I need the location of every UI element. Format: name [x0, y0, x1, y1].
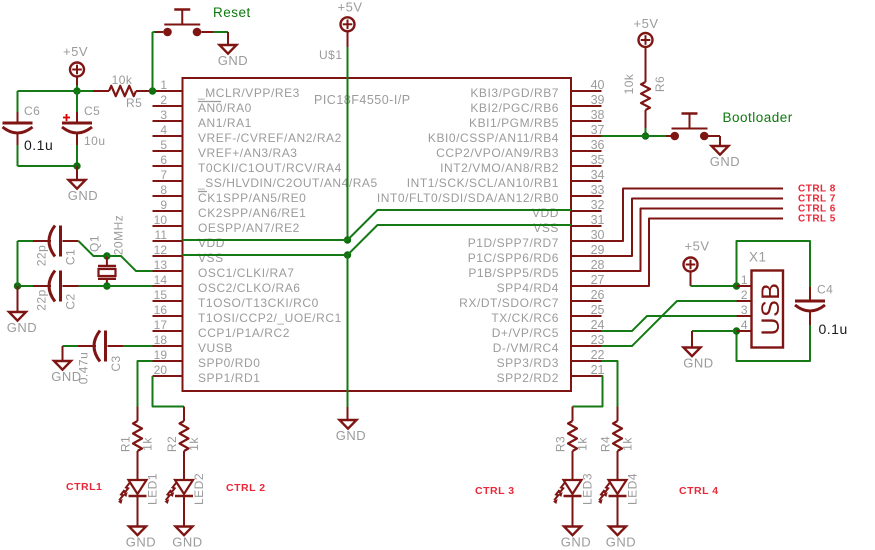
node +5V rail junction	[73, 87, 80, 94]
svg-text:1k: 1k	[187, 437, 201, 451]
wire CTRL 7 from pin 29	[602, 199, 784, 257]
wire VSS down to ground	[347, 255, 349, 407]
svg-text:3: 3	[160, 108, 167, 122]
svg-text:30: 30	[591, 228, 605, 242]
IC U$1 PIC18F4550-I/P body outline	[183, 78, 572, 391]
+5V supply symbol at R6	[639, 33, 653, 47]
svg-text:C1: C1	[64, 249, 78, 265]
IC U$1 left pin stubs 1-20	[153, 91, 183, 376]
svg-text:19: 19	[154, 348, 168, 362]
wire C2 to pin 14 OSC2	[79, 285, 153, 287]
ground symbol at C3	[54, 361, 71, 370]
svg-text:17: 17	[154, 318, 168, 332]
svg-text:0.1u: 0.1u	[819, 321, 848, 337]
svg-text:11: 11	[155, 228, 168, 242]
svg-text:18: 18	[154, 333, 168, 347]
svg-text:+5V: +5V	[685, 239, 710, 254]
svg-text:_SS/HLVDIN/C2OUT/AN4/RA5: _SS/HLVDIN/C2OUT/AN4/RA5	[197, 176, 378, 190]
wire bootloader button to ground	[704, 135, 720, 137]
svg-text:5: 5	[160, 138, 167, 152]
svg-text:1: 1	[741, 273, 748, 287]
svg-text:VUSB: VUSB	[198, 341, 233, 355]
ground symbol below LED3	[564, 527, 581, 536]
svg-text:10k: 10k	[112, 73, 133, 87]
capacitor C5 10u electrolytic	[76, 91, 78, 112]
wire reset button left contact down to MCLR node	[155, 31, 163, 33]
svg-text:_MCLR/VPP/RE3: _MCLR/VPP/RE3	[197, 86, 300, 100]
svg-text:KBI3/PGD/RB7: KBI3/PGD/RB7	[470, 86, 559, 100]
svg-text:22p: 22p	[35, 289, 49, 311]
IC U$1 left pin names	[197, 86, 378, 385]
capacitor C6 0.1u	[17, 91, 19, 112]
svg-text:35: 35	[591, 153, 605, 167]
wire VSS left to pin 12	[183, 254, 348, 256]
svg-text:VSS: VSS	[198, 251, 224, 265]
node crystal top junction	[103, 252, 110, 259]
svg-text:+5V: +5V	[338, 0, 363, 15]
svg-text:VDD: VDD	[532, 206, 559, 220]
svg-text:GND: GND	[606, 535, 636, 550]
+5V supply symbol left	[70, 63, 84, 77]
LED3	[564, 480, 582, 494]
svg-text:20MHz: 20MHz	[112, 215, 126, 256]
svg-text:CK2SPP/AN6/RE1: CK2SPP/AN6/RE1	[198, 206, 306, 220]
svg-text:1k: 1k	[141, 437, 155, 451]
svg-text:1k: 1k	[621, 437, 635, 451]
ground symbol below C5	[69, 180, 86, 189]
svg-text:INT0/FLT0/SDI/SDA/AN12/RB0: INT0/FLT0/SDI/SDA/AN12/RB0	[377, 191, 559, 205]
svg-text:C2: C2	[64, 293, 78, 309]
svg-text:RX/DT/SDO/RC7: RX/DT/SDO/RC7	[459, 296, 559, 310]
svg-text:R4: R4	[599, 436, 613, 452]
svg-text:GND: GND	[336, 428, 366, 443]
ground symbol below LED1	[129, 527, 146, 536]
ground symbol below LED4	[609, 527, 626, 536]
svg-text:D+/VP/RC5: D+/VP/RC5	[492, 326, 559, 340]
svg-text:10u: 10u	[84, 134, 106, 148]
+5V supply symbol at USB	[684, 258, 698, 272]
wire +5V stem to rail	[76, 77, 78, 86]
svg-text:GND: GND	[51, 369, 81, 384]
svg-text:R3: R3	[554, 436, 568, 452]
svg-text:CTRL 2: CTRL 2	[226, 482, 266, 494]
svg-text:GND: GND	[68, 188, 98, 203]
svg-text:7: 7	[160, 168, 167, 182]
svg-text:KBI2/PGC/RB6: KBI2/PGC/RB6	[470, 101, 559, 115]
wire VDD diagonal to pin 32	[348, 210, 572, 240]
svg-text:VDD: VDD	[198, 236, 225, 250]
svg-text:P1D/SPP7/RD7: P1D/SPP7/RD7	[468, 236, 559, 250]
svg-text:10: 10	[154, 213, 168, 227]
wire CTRL 5 from pin 27	[602, 219, 784, 287]
wire pin 23 D- to USB pin 2	[602, 301, 737, 346]
svg-text:8: 8	[160, 183, 167, 197]
IC U$1 right pin numbers 21-40	[591, 78, 605, 377]
svg-text:GND: GND	[561, 535, 591, 550]
svg-text:U$1: U$1	[319, 48, 343, 62]
ground symbol below IC	[340, 420, 357, 429]
svg-text:CTRL 3: CTRL 3	[475, 485, 515, 497]
svg-text:R5: R5	[126, 96, 142, 110]
IC U$1 right pin stubs 21-40	[571, 91, 602, 376]
wire pin 21 SPP2 to R3	[573, 376, 603, 407]
node MCLR junction at pin 1	[149, 87, 156, 94]
pushbutton S1 Reset	[164, 24, 200, 26]
svg-text:SPP1/RD1: SPP1/RD1	[198, 371, 260, 385]
wire junction down to ground	[17, 286, 19, 312]
svg-text:1k: 1k	[576, 437, 590, 451]
svg-text:38: 38	[591, 108, 605, 122]
svg-text:GND: GND	[683, 356, 713, 371]
svg-text:3: 3	[741, 303, 748, 317]
node VSS junction	[344, 251, 351, 258]
svg-text:GND: GND	[126, 535, 156, 550]
wire C6 bottom to ground rail	[18, 165, 78, 167]
svg-text:14: 14	[154, 273, 168, 287]
svg-text:+5V: +5V	[634, 16, 659, 31]
svg-text:PIC18F4550-I/P: PIC18F4550-I/P	[314, 93, 411, 107]
connector X1 pin stubs	[737, 286, 752, 331]
svg-text:OESPP/AN7/RE2: OESPP/AN7/RE2	[198, 221, 300, 235]
ground symbol below LED2	[176, 527, 193, 536]
wire C1 to C2 vertical	[17, 241, 19, 286]
svg-text:23: 23	[591, 333, 605, 347]
svg-text:X1: X1	[749, 250, 767, 265]
crystal Q1 20MHz	[106, 256, 108, 266]
svg-text:20: 20	[154, 363, 168, 377]
svg-text:4: 4	[160, 123, 167, 137]
svg-text:22p: 22p	[35, 245, 49, 267]
svg-text:C6: C6	[24, 104, 40, 118]
svg-text:25: 25	[591, 303, 605, 317]
node VDD junction	[344, 236, 351, 243]
wire +5V rail to C6	[18, 90, 78, 92]
connector X1 USB socket	[752, 271, 784, 348]
svg-text:Bootloader: Bootloader	[723, 110, 793, 125]
svg-text:OSC1/CLKI/RA7: OSC1/CLKI/RA7	[198, 266, 295, 280]
svg-text:T1OSI/CCP2/_UOE/RC1: T1OSI/CCP2/_UOE/RC1	[198, 311, 342, 325]
node bootloader junction at pin 37	[642, 132, 649, 139]
svg-text:Q1: Q1	[88, 235, 102, 252]
svg-text:16: 16	[154, 303, 168, 317]
svg-text:INT1/SCK/SCL/AN10/RB1: INT1/SCK/SCL/AN10/RB1	[407, 176, 559, 190]
wire +5V down to VDD junction	[347, 31, 349, 47]
resistor R3 1k	[572, 407, 574, 422]
wire VDD left to pin 11	[183, 239, 348, 241]
LED2	[175, 480, 193, 494]
svg-text:R2: R2	[165, 436, 179, 452]
svg-text:C5: C5	[84, 104, 100, 118]
svg-text:LED1: LED1	[146, 473, 160, 505]
svg-text:15: 15	[154, 288, 168, 302]
svg-text:CTRL 5: CTRL 5	[798, 214, 836, 225]
svg-text:9: 9	[160, 198, 167, 212]
svg-text:+5V: +5V	[63, 44, 88, 59]
wire C3 left to ground	[62, 346, 64, 361]
wire down to ground	[76, 166, 78, 180]
capacitor C2 22p	[18, 285, 34, 287]
svg-text:27: 27	[591, 273, 605, 287]
node crystal bottom junction	[103, 282, 110, 289]
svg-text:T1OSO/T13CKI/RC0: T1OSO/T13CKI/RC0	[198, 296, 319, 310]
svg-text:SPP2/RD2: SPP2/RD2	[497, 371, 559, 385]
svg-text:SPP0/RD0: SPP0/RD0	[198, 356, 260, 370]
svg-text:22: 22	[591, 348, 605, 362]
svg-text:Reset: Reset	[213, 5, 251, 20]
svg-text:KBI0/CSSP/AN11/RB4: KBI0/CSSP/AN11/RB4	[428, 131, 559, 145]
capacitor C4 0.1u	[809, 287, 811, 301]
LED4	[609, 480, 627, 494]
wire ground to USB pin 4	[692, 330, 737, 332]
wire crystal top to pin 13 OSC1	[107, 256, 153, 271]
svg-text:VREF-/CVREF/AN2/RA2: VREF-/CVREF/AN2/RA2	[198, 131, 342, 145]
svg-text:KBI1/PGM/RB5: KBI1/PGM/RB5	[469, 116, 559, 130]
svg-text:34: 34	[591, 168, 605, 182]
wire +5V to USB pin 1	[690, 272, 692, 287]
svg-text:C3: C3	[109, 355, 123, 371]
ground symbol below crystal caps	[9, 312, 26, 321]
wire rail to R5	[77, 90, 93, 92]
svg-text:13: 13	[154, 258, 168, 272]
svg-text:31: 31	[591, 213, 605, 227]
svg-text:28: 28	[591, 258, 605, 272]
node C1 C2 left junction	[14, 282, 21, 289]
svg-text:21: 21	[591, 363, 605, 377]
svg-text:VREF+/AN3/RA3: VREF+/AN3/RA3	[198, 146, 298, 160]
svg-text:33: 33	[591, 183, 605, 197]
wire VBUS loop up and over to C4	[737, 241, 811, 287]
svg-text:10k: 10k	[622, 73, 636, 94]
wire pin 19 SPP0 to R1	[138, 361, 153, 407]
svg-text:T0CKI/C1OUT/RCV/RA4: T0CKI/C1OUT/RCV/RA4	[198, 161, 342, 175]
svg-text:INT2/VMO/AN8/RB2: INT2/VMO/AN8/RB2	[440, 161, 559, 175]
wire CTRL 6 from pin 28	[602, 209, 784, 272]
svg-text:29: 29	[591, 243, 605, 257]
svg-text:26: 26	[591, 288, 605, 302]
svg-text:LED4: LED4	[626, 473, 640, 505]
resistor R1 1k	[137, 407, 139, 422]
svg-text:12: 12	[154, 243, 168, 257]
svg-text:6: 6	[160, 153, 167, 167]
svg-text:GND: GND	[7, 320, 37, 335]
svg-text:4: 4	[741, 318, 748, 332]
svg-text:AN1/RA1: AN1/RA1	[198, 116, 252, 130]
wire C1 to crystal top	[79, 241, 107, 256]
ground symbol at bootloader button	[712, 146, 729, 155]
IC U$1 right pin names	[377, 86, 559, 385]
svg-text:GND: GND	[172, 535, 202, 550]
svg-text:P1C/SPP6/RD6: P1C/SPP6/RD6	[468, 251, 559, 265]
svg-text:0.1u: 0.1u	[24, 137, 53, 153]
svg-text:40: 40	[591, 78, 605, 92]
svg-text:R1: R1	[119, 436, 133, 452]
pushbutton S2 Bootloader	[672, 128, 708, 130]
svg-text:VSS: VSS	[533, 221, 559, 235]
svg-text:CCP1/P1A/RC2: CCP1/P1A/RC2	[198, 326, 290, 340]
wire CTRL 8 from pin 30	[602, 189, 784, 242]
svg-text:CK1SPP/AN5/RE0: CK1SPP/AN5/RE0	[198, 191, 306, 205]
wire VSS diagonal to pin 31	[348, 225, 572, 255]
svg-text:AN0/RA0: AN0/RA0	[198, 101, 252, 115]
node ground rail junction	[73, 162, 80, 169]
svg-text:D-/VM/RC4: D-/VM/RC4	[493, 341, 559, 355]
resistor R4 1k	[617, 407, 619, 422]
svg-text:24: 24	[591, 318, 605, 332]
resistor R6 10k	[645, 47, 647, 82]
LED1	[129, 480, 147, 494]
wire reset button right contact to ground	[201, 31, 213, 33]
svg-text:CCP2/VPO/AN9/RB3: CCP2/VPO/AN9/RB3	[436, 146, 559, 160]
svg-text:SPP4/RD4: SPP4/RD4	[497, 281, 559, 295]
capacitor C3 0.47u	[63, 345, 79, 347]
svg-text:GND: GND	[218, 53, 248, 68]
capacitor C1 22p	[18, 240, 34, 242]
svg-text:C4: C4	[817, 283, 833, 297]
node USB pin 4 junction	[733, 327, 740, 334]
wire pin 22 SPP3 to R4	[602, 361, 618, 407]
IC U$1 left pin numbers 1-20	[154, 78, 168, 377]
svg-text:32: 32	[591, 198, 605, 212]
svg-text:2: 2	[160, 93, 167, 107]
svg-text:1: 1	[160, 78, 167, 92]
wire pin 20 SPP1 to R2	[153, 376, 185, 407]
wire C4 bottom to USB pin 4	[737, 325, 811, 361]
svg-text:GND: GND	[710, 154, 740, 169]
connector X1 pin numbers 1-4	[741, 273, 748, 332]
svg-text:2: 2	[741, 288, 748, 302]
svg-text:36: 36	[591, 138, 605, 152]
node USB pin 1 junction	[733, 282, 740, 289]
svg-text:CTRL1: CTRL1	[66, 481, 102, 493]
svg-text:TX/CK/RC6: TX/CK/RC6	[491, 311, 559, 325]
ground symbol at USB	[684, 348, 701, 357]
wire pin 24 D+ to USB pin 3	[602, 316, 737, 331]
resistor R2 1k	[183, 407, 185, 422]
svg-text:USB: USB	[757, 283, 785, 336]
svg-text:LED3: LED3	[581, 473, 595, 505]
svg-text:LED2: LED2	[192, 473, 206, 505]
wire pin 37 to bootloader button	[602, 135, 667, 137]
svg-text:CTRL 4: CTRL 4	[679, 485, 719, 497]
svg-text:R6: R6	[653, 76, 667, 92]
resistor R5 10k horizontal	[93, 90, 109, 92]
+5V supply symbol at IC top	[341, 17, 355, 31]
svg-text:SPP3/RD3: SPP3/RD3	[497, 356, 559, 370]
svg-text:39: 39	[591, 93, 605, 107]
svg-text:37: 37	[591, 123, 605, 137]
ground symbol at reset button	[220, 45, 237, 54]
svg-text:OSC2/CLKO/RA6: OSC2/CLKO/RA6	[198, 281, 301, 295]
svg-text:P1B/SPP5/RD5: P1B/SPP5/RD5	[468, 266, 559, 280]
